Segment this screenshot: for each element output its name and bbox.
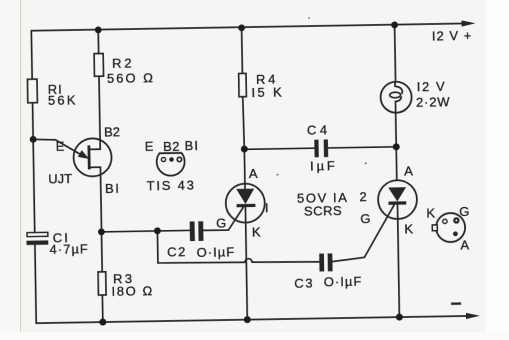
svg-text:R2: R2: [112, 55, 134, 70]
svg-text:2: 2: [359, 189, 366, 204]
svg-text:4·7µF: 4·7µF: [49, 241, 88, 257]
svg-text:IµF: IµF: [310, 158, 338, 173]
svg-text:K: K: [426, 205, 435, 220]
svg-text:E: E: [145, 139, 154, 154]
svg-text:K: K: [404, 221, 413, 236]
svg-text:A: A: [249, 166, 258, 181]
svg-text:G: G: [216, 215, 226, 230]
svg-text:A: A: [404, 163, 413, 178]
svg-text:E: E: [56, 139, 65, 154]
svg-text:G: G: [459, 204, 469, 219]
svg-text:C3: C3: [294, 275, 314, 290]
svg-text:UJT: UJT: [48, 171, 72, 186]
svg-text:O·IµF: O·IµF: [197, 244, 236, 260]
svg-text:I2 V: I2 V: [417, 79, 447, 94]
svg-text:2·2W: 2·2W: [416, 94, 451, 110]
svg-text:O·IµF: O·IµF: [324, 274, 363, 290]
svg-text:C4: C4: [307, 122, 331, 137]
svg-text:TIS 43: TIS 43: [146, 177, 195, 193]
svg-text:56K: 56K: [48, 92, 78, 107]
svg-text:SCRS: SCRS: [304, 203, 342, 219]
svg-text:BI: BI: [105, 181, 121, 196]
svg-text:B2: B2: [163, 139, 180, 154]
svg-text:I8O Ω: I8O Ω: [111, 283, 154, 299]
svg-text:B2: B2: [104, 124, 120, 139]
svg-text:56O Ω: 56O Ω: [107, 70, 155, 86]
svg-text:A: A: [460, 238, 469, 253]
svg-text:I2 V +: I2 V +: [432, 28, 473, 44]
svg-text:K: K: [252, 224, 261, 239]
svg-text:G: G: [360, 211, 370, 226]
svg-text:C2: C2: [167, 244, 187, 259]
svg-text:I5 K: I5 K: [251, 84, 284, 100]
svg-text:BI: BI: [185, 138, 200, 153]
svg-text:I: I: [265, 200, 269, 215]
